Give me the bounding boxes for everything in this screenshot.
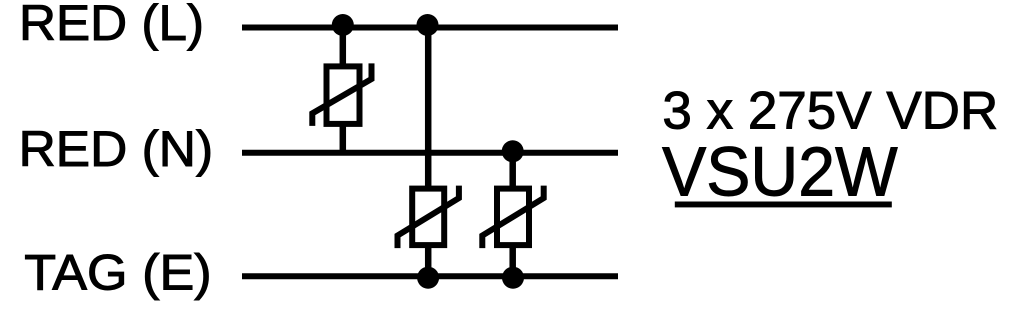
wire: V3 bottom lead [509,245,516,276]
wire: V1 bottom lead [340,123,347,153]
junction dot E/RV2 [417,267,439,289]
varistor RV3 (N-E) [482,186,543,249]
varistor RV1 (L-N) [312,63,371,126]
wire E (earth line) [242,273,618,279]
wire: V1 top lead [340,28,347,67]
wire L (live line) [242,25,618,31]
underline of VSU2W [675,202,892,208]
wire N (neutral line) [242,150,618,156]
wire: V3 top lead [509,153,516,189]
svg-text:VSU2W: VSU2W [662,133,898,211]
svg-text:TAG (E): TAG (E) [24,244,211,301]
junction dot E/RV3 [502,267,524,289]
junction dot N/RV3 [502,140,524,162]
wire: V2 bottom lead [425,245,432,276]
varistor RV2 (L-E) [398,186,459,249]
svg-text:RED (L): RED (L) [19,0,204,51]
junction dot L/RV1 [332,14,354,36]
svg-text:RED (N): RED (N) [19,120,214,177]
junction dot L/RV2 [417,14,439,36]
wire: V2 top lead (L to box, crossing N) [425,28,432,190]
